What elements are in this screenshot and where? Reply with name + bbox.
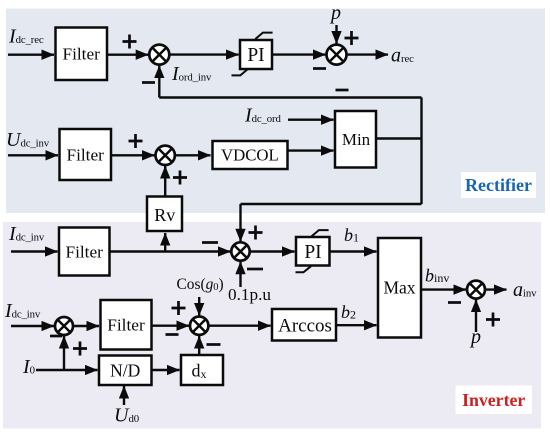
svg-text:Filter: Filter (107, 316, 145, 335)
svg-text:Max: Max (383, 277, 415, 297)
svg-text:N/D: N/D (110, 360, 140, 380)
svg-text:PI: PI (304, 242, 321, 263)
svg-text:PI: PI (247, 45, 264, 66)
svg-text:0.1p.u: 0.1p.u (228, 285, 271, 304)
svg-text:Inverter: Inverter (462, 390, 525, 410)
svg-text:Rectifier: Rectifier (465, 175, 532, 195)
svg-text:p: p (469, 326, 481, 348)
svg-text:Arccos: Arccos (278, 316, 332, 337)
svg-text:Min: Min (342, 130, 371, 149)
svg-text:p: p (329, 2, 341, 24)
svg-text:Filter: Filter (65, 242, 103, 261)
svg-text:VDCOL: VDCOL (221, 145, 279, 164)
svg-text:Filter: Filter (62, 45, 100, 64)
svg-text:Filter: Filter (66, 145, 104, 164)
svg-text:Rv: Rv (154, 205, 175, 225)
